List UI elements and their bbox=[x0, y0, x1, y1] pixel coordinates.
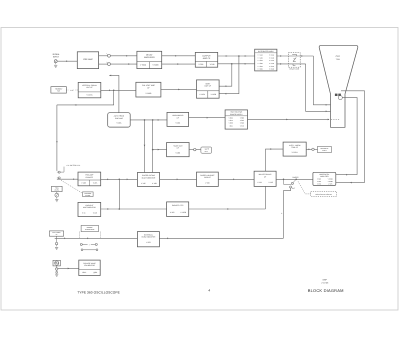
svg-text:V 143B: V 143B bbox=[145, 92, 152, 95]
block +gate out connector label bbox=[201, 147, 212, 153]
svg-text:V 156: V 156 bbox=[205, 181, 209, 184]
wire miller top to auto-norm bbox=[266, 148, 284, 171]
svg-text:V 165: V 165 bbox=[268, 181, 272, 184]
wire trigger switch to trig amp bbox=[57, 178, 78, 180]
svg-text:V 13A: V 13A bbox=[116, 122, 122, 125]
block sweep trigger amp (rounded) bbox=[108, 113, 131, 127]
svg-text:V 543: V 543 bbox=[210, 63, 215, 66]
wire holdoff to miller bbox=[218, 179, 254, 181]
svg-text:MULTIVIBRATOR: MULTIVIBRATOR bbox=[142, 176, 156, 179]
svg-text:V 145: V 145 bbox=[141, 182, 145, 185]
label internal trigger switch bbox=[61, 164, 81, 172]
wire gating branch 2 down bbox=[152, 120, 154, 173]
node signal input connector bbox=[52, 53, 60, 64]
block +gate out cf bbox=[167, 143, 190, 157]
CRT deflection plates bbox=[335, 94, 342, 100]
svg-text:V 193: V 193 bbox=[175, 151, 180, 154]
svg-text:PICKOFF: PICKOFF bbox=[86, 176, 93, 179]
svg-text:V 161: V 161 bbox=[257, 181, 261, 184]
wire dist amp to delay line upper bbox=[277, 55, 314, 57]
svg-text:EXTERNAL: EXTERNAL bbox=[144, 233, 153, 236]
svg-text:V 104: V 104 bbox=[175, 121, 180, 124]
svg-text:×: × bbox=[89, 244, 90, 246]
block trigger slope label bbox=[83, 192, 94, 197]
block delay line (dashed) bbox=[288, 53, 300, 71]
svg-text:CF: CF bbox=[177, 116, 179, 119]
block horizontal amplifier bbox=[313, 172, 336, 185]
svg-text:BLOCK DIAGRAM: BLOCK DIAGRAM bbox=[308, 288, 344, 293]
wire pickoff cf to miller bottom bbox=[189, 186, 266, 209]
wire swp trig out to unblanking bbox=[130, 119, 167, 121]
block output amplifier driver bbox=[195, 52, 217, 67]
block vertical output amplifier bbox=[197, 80, 220, 98]
svg-text:V 163B: V 163B bbox=[211, 93, 217, 96]
trigger level potentiometer bbox=[55, 192, 59, 199]
block unblanking bbox=[167, 112, 189, 126]
wire slope linkage (dashed) bbox=[61, 180, 82, 193]
wire delay line out upper to CRT bbox=[313, 56, 330, 106]
svg-text:SWEEP: SWEEP bbox=[292, 176, 299, 179]
block trace rotation label bbox=[318, 146, 332, 152]
wire delay line out lower to CRT bbox=[306, 64, 331, 112]
wire ext horiz up to switch bbox=[281, 186, 291, 238]
svg-text:CALIBRATOR: CALIBRATOR bbox=[84, 264, 95, 267]
wire vertical pickoff to swp trig bbox=[109, 75, 119, 113]
block distributed amplifiers bbox=[255, 49, 277, 71]
node sweep-ext switch bbox=[283, 179, 297, 191]
ground (signal input) bbox=[54, 65, 57, 67]
block external horiz amplifier bbox=[137, 232, 159, 247]
wire signal input to preamp bbox=[58, 60, 78, 62]
wire cal volt amp to vert output box bbox=[161, 89, 197, 91]
node trigger switch contact upper bbox=[57, 171, 60, 173]
wire feedback to vert output box lower bbox=[219, 56, 239, 95]
svg-text:V 533: V 533 bbox=[199, 63, 204, 66]
svg-text:2-10-58: 2-10-58 bbox=[321, 282, 329, 285]
wire driver to dist amp lower bbox=[218, 63, 255, 65]
svg-text:V 183: V 183 bbox=[170, 211, 174, 214]
node test point upper bbox=[107, 54, 111, 58]
block horizontal display label (dashed) bbox=[311, 192, 337, 197]
block preamp U1 bbox=[77, 52, 98, 69]
svg-text:AMPLIFIER: AMPLIFIER bbox=[144, 56, 155, 59]
wire trig amp to sweep gating bbox=[101, 179, 138, 181]
wire trig amp branch down bbox=[118, 179, 120, 209]
wire CRT plate to horiz line lower bbox=[342, 98, 357, 175]
wire lockout to pickoff cf bbox=[101, 208, 167, 210]
svg-text:PRE AMP: PRE AMP bbox=[83, 58, 93, 61]
wire gate branch to +gate box bbox=[153, 149, 167, 151]
block vertical signal out bbox=[78, 82, 101, 97]
block miller runup cf bbox=[254, 171, 276, 186]
wire dist amp to delay line lower bbox=[277, 63, 306, 65]
node ext horiz in jack bbox=[55, 236, 57, 246]
wire horiz amp out lower bbox=[336, 182, 365, 184]
svg-text:SWP AMP: SWP AMP bbox=[115, 117, 124, 120]
block delay amplifier bbox=[137, 51, 162, 68]
block lockout attenuator bbox=[78, 202, 101, 216]
ground (trigger level) bbox=[55, 200, 58, 202]
svg-text:LOCKOUT: LOCKOUT bbox=[85, 204, 93, 207]
node test point lower bbox=[107, 62, 111, 66]
wire gating branch 1 down bbox=[144, 120, 146, 173]
svg-text:TYPE 360 OSCILLOSCOPE: TYPE 360 OSCILLOSCOPE bbox=[77, 290, 120, 294]
wire time/div link bbox=[66, 89, 78, 92]
wire horiz amp out upper bbox=[336, 174, 357, 176]
block cal volt amplifier bbox=[136, 82, 161, 97]
block trigger amp pickoff bbox=[78, 172, 101, 186]
wire vert sig out to cal volt amp bbox=[101, 90, 136, 92]
wire hv to crt base bbox=[248, 119, 341, 121]
svg-text:V 193B: V 193B bbox=[180, 211, 186, 214]
svg-text:CRT: CRT bbox=[336, 55, 341, 58]
svg-text:SW: SW bbox=[57, 90, 60, 93]
label block diagram bbox=[308, 288, 344, 293]
wire ext horiz to amplifier bbox=[136, 237, 138, 239]
block high voltage power supply bbox=[225, 110, 247, 129]
wire sweep gating to holdoff bbox=[160, 179, 197, 181]
svg-text:V 137A: V 137A bbox=[87, 94, 94, 97]
wire horiz display linkage (dashed) bbox=[298, 181, 311, 194]
label sweep bbox=[292, 176, 299, 179]
svg-text:TRIG CF: TRIG CF bbox=[291, 146, 298, 149]
svg-text:OUT CF: OUT CF bbox=[204, 85, 212, 88]
node cal waveform symbol bbox=[53, 260, 60, 266]
block trigger level control bbox=[52, 186, 63, 191]
block sweep holdoff bbox=[197, 172, 219, 186]
block ext horiz in label bbox=[49, 231, 63, 236]
wire driver to dist amp upper bbox=[218, 55, 255, 57]
svg-text:DELAY LINE: DELAY LINE bbox=[289, 68, 299, 71]
svg-text:PICKOFF CF'S: PICKOFF CF'S bbox=[172, 204, 184, 207]
svg-text:V 504B: V 504B bbox=[153, 64, 160, 67]
svg-text:V 353: V 353 bbox=[146, 241, 150, 244]
svg-text:INPUT: INPUT bbox=[53, 55, 60, 58]
node +gate out jack bbox=[189, 148, 201, 150]
label page number bbox=[208, 288, 210, 292]
block sweep gating multivibrator bbox=[137, 173, 159, 187]
wire delay amp to driver upper bbox=[162, 55, 196, 57]
svg-text:V 163A: V 163A bbox=[199, 93, 205, 96]
wire miller to horiz amp (sweep line) bbox=[276, 179, 313, 181]
wire preamp out upper bbox=[99, 55, 137, 57]
wire feedback to vert output box upper bbox=[219, 64, 232, 87]
wire ext horiz amp out bbox=[159, 238, 283, 240]
svg-text:V 161A: V 161A bbox=[292, 151, 299, 154]
svg-text:CF: CF bbox=[264, 175, 266, 178]
block time/div switch bbox=[51, 87, 67, 93]
wire CRT plate to horiz line upper bbox=[341, 91, 365, 183]
svg-text:4: 4 bbox=[208, 288, 210, 292]
CRT envelope bbox=[319, 45, 358, 127]
node trigger switch contact lower bbox=[57, 177, 60, 179]
svg-text:CF: CF bbox=[177, 147, 179, 150]
wire preamp out lower bbox=[99, 63, 137, 65]
wire ext horiz line bbox=[55, 238, 138, 240]
ground (cal out) bbox=[55, 274, 58, 276]
node trig out jack bbox=[306, 148, 317, 150]
svg-text:V 504A: V 504A bbox=[140, 64, 147, 67]
node cal out jack bbox=[56, 266, 58, 273]
svg-text:AMP CF: AMP CF bbox=[203, 57, 211, 60]
wire unblanking to hv supply bbox=[189, 117, 226, 119]
ground (ext horiz in) bbox=[55, 247, 58, 249]
svg-text:T561: T561 bbox=[336, 58, 340, 61]
label type oscilloscope bbox=[77, 290, 120, 294]
node switch contact row 2 bbox=[81, 249, 98, 251]
svg-text:MRP: MRP bbox=[323, 278, 328, 281]
wire trigger pickoff down-left bbox=[56, 90, 114, 171]
block pickoff cf bbox=[167, 202, 189, 217]
wire cal jack to calibrator bbox=[58, 268, 79, 270]
node switch contact row 1 bbox=[80, 243, 97, 246]
svg-text:OUT CF: OUT CF bbox=[86, 86, 92, 89]
label drafter initials bbox=[321, 278, 329, 284]
block auto-norm trigger bbox=[283, 142, 306, 156]
block square wave calibrator bbox=[79, 260, 100, 275]
wire delay amp to driver lower bbox=[162, 63, 196, 65]
block sweep-horizontal switch label (dashed sides) bbox=[79, 225, 100, 238]
